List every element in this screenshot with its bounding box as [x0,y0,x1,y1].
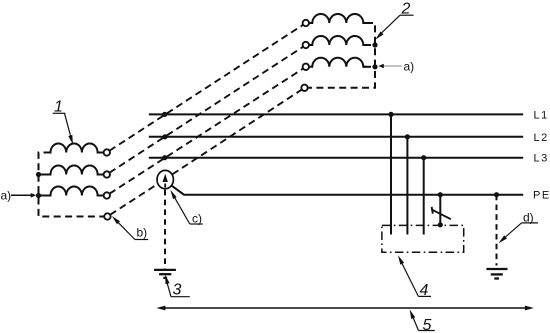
label 2 leader [379,15,414,36]
wire: dashed link neutral T1-T2 lower segment [110,184,158,215]
wire: L3 drop to equipment [423,158,425,235]
label a left arrow [11,194,32,196]
label b leader [115,219,149,240]
svg-text:c): c) [192,212,202,226]
transformer T2 winding phase 1 [309,14,367,23]
svg-text:d): d) [523,210,534,224]
svg-text:b): b) [137,226,148,240]
disconnect link tick [432,207,433,214]
junction dot L1 tap [162,112,167,117]
arrowhead inside node c [163,174,168,182]
transformer T1 winding phase 1 [44,144,103,153]
junction dot T1 bus row3 [36,193,41,198]
T1 terminal circle phase 1 [104,149,110,155]
junction dot L2 tap [162,134,167,139]
node c circle (PEN connection point) [157,170,173,188]
transformer T2 secondary bus (dashed) [308,23,375,88]
wire: dashed link phase 1 T1-T2 [110,25,304,151]
ground electrode 3 (earth symbol) [154,270,176,278]
wire: dashed link neutral T1-T2 upper segment [173,90,302,175]
T1 terminal circle phase 3 [104,192,110,198]
label 1 leader [53,113,72,140]
svg-text:PE: PE [533,190,550,202]
T2 bus stub row3 (dashed) [364,66,375,68]
svg-text:4: 4 [420,282,429,299]
wire: dashed earthing conductor from node c to earth 3 [164,190,166,269]
transformer T2 winding phase 2 [309,36,367,45]
T2 terminal circle neutral [301,85,307,91]
line L2 [149,136,523,138]
junction dot T1 bus row2 [36,172,41,177]
svg-text:a): a) [1,189,12,203]
svg-text:5: 5 [423,317,432,333]
label d leader [501,223,538,241]
junction dot T2 bus row3 [372,64,377,69]
junction dot PE drop bottom [438,222,443,227]
junction dot PE drop top [438,192,443,197]
T2 terminal circle phase 3 [303,64,309,70]
junction dot L3 drop [421,155,426,160]
wire: dashed earthing conductor to earth d [496,195,498,266]
T1 terminal circle neutral [104,213,110,219]
transformer T1 winding phase 2 [40,166,103,175]
T2 bus stub row2 (dashed) [364,44,375,46]
svg-text:3: 3 [173,282,182,299]
transformer T2 winding phase 3 [309,58,367,67]
junction dot L1 drop [388,112,393,117]
svg-text:a): a) [404,59,415,73]
wire: L2 drop to equipment [406,137,408,235]
svg-text:L2: L2 [534,132,549,144]
junction dot T2 bus row2 [372,42,377,47]
T2 terminal circle phase 1 [303,20,309,26]
transformer T1 primary bus (dashed) [39,153,105,217]
junction dot PE right tap [494,192,499,197]
junction dot L3 tap [162,155,167,160]
line PE [172,186,524,195]
wire: L1 drop to equipment [390,114,392,234]
svg-text:L1: L1 [534,109,549,121]
svg-text:2: 2 [401,1,411,18]
ground electrode d (earth symbol) [486,269,507,279]
label c leader [173,194,203,224]
transformer T1 winding phase 3 [40,187,103,196]
T2 terminal circle phase 2 [303,42,309,48]
line L1 [149,113,523,115]
equipment enclosure box 4 (dash-dot) [382,225,464,252]
wire: dashed link phase 3 T1-T2 [110,69,304,194]
svg-text:1: 1 [54,99,63,116]
line L3 [149,157,523,159]
label 3 leader [166,281,189,297]
wire: dashed link phase 2 T1-T2 [110,47,304,173]
label 4 leader [401,261,432,297]
wire: PE drop to equipment [439,195,441,225]
dimension line 5 (double arrow) [160,307,530,309]
junction dot L2 drop [405,134,410,139]
label a right arrow [384,65,403,67]
label 5 leader [412,315,435,331]
T1 terminal circle phase 2 [104,171,110,177]
disconnect link blade on PE drop [431,209,451,219]
svg-text:L3: L3 [534,153,549,165]
